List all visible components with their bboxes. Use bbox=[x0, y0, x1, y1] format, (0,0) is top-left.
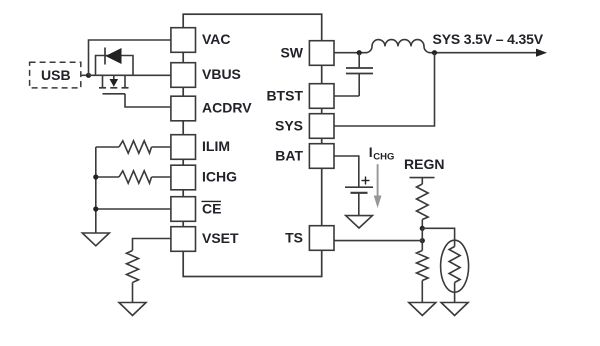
REGN rail stub bbox=[410, 177, 435, 179]
node bus-ICHG bbox=[93, 174, 98, 179]
pin BTST bbox=[266, 84, 334, 109]
wire CE to bus bbox=[96, 208, 171, 210]
ground (thermistor) bbox=[441, 303, 468, 316]
wire inductor to output bbox=[430, 52, 537, 54]
wire SYS pin to output node bbox=[334, 53, 435, 126]
svg-text:I: I bbox=[369, 144, 373, 160]
node SYS output bbox=[432, 50, 437, 55]
node TS lower bbox=[420, 238, 425, 243]
svg-text:ICHG: ICHG bbox=[202, 168, 237, 184]
node bus-CE bbox=[93, 206, 98, 211]
diode D1 (body diode) bbox=[105, 48, 122, 65]
ground (TS divider) bbox=[409, 303, 436, 316]
svg-text:REGN: REGN bbox=[404, 156, 444, 172]
wire resistor to ground bbox=[132, 283, 134, 303]
wire resistor to bus bbox=[96, 176, 119, 178]
wire between nodes bbox=[421, 228, 423, 250]
pin SYS bbox=[275, 114, 334, 139]
wire SW to inductor bbox=[334, 52, 366, 54]
svg-text:BAT: BAT bbox=[275, 148, 303, 164]
node TS upper bbox=[420, 226, 425, 231]
arrow ICHG (charge current) bbox=[374, 164, 382, 208]
IC U1 body bbox=[183, 14, 322, 276]
ground (VSET) bbox=[119, 303, 146, 316]
label ICHG bbox=[369, 144, 395, 162]
resistor R3 (VSET) bbox=[127, 251, 139, 283]
ground (battery) bbox=[346, 216, 373, 228]
svg-text:SW: SW bbox=[280, 44, 303, 60]
svg-text:TS: TS bbox=[285, 230, 303, 246]
body diode branch wires bbox=[96, 56, 134, 76]
resistor R5 (TS lower) bbox=[417, 251, 429, 303]
svg-text:BTST: BTST bbox=[266, 88, 303, 104]
pin ACDRV bbox=[171, 96, 252, 121]
svg-text:VAC: VAC bbox=[202, 31, 231, 47]
pin VAC bbox=[171, 28, 231, 53]
thermistor RT1 bbox=[441, 240, 469, 302]
node USB junction bbox=[86, 73, 91, 78]
arrow SYS output bbox=[536, 49, 547, 57]
resistor R4 (REGN to TS) bbox=[417, 178, 429, 229]
svg-text:CHG: CHG bbox=[373, 151, 394, 162]
svg-text:USB: USB bbox=[41, 67, 71, 83]
pin VBUS bbox=[171, 63, 241, 88]
resistor R1 (ILIM) bbox=[119, 141, 152, 153]
pin BAT bbox=[275, 144, 334, 169]
svg-text:ACDRV: ACDRV bbox=[202, 100, 252, 116]
pin CE (active low, overline) bbox=[171, 197, 222, 222]
svg-text:CE: CE bbox=[202, 200, 221, 216]
svg-text:VBUS: VBUS bbox=[202, 66, 241, 82]
battery BT1 bbox=[345, 177, 373, 216]
pin SW bbox=[280, 41, 334, 66]
pin VSET bbox=[171, 227, 239, 252]
transistor Q1 (P-MOSFET) bbox=[99, 75, 129, 94]
USB source box bbox=[30, 62, 81, 88]
ground (left bus) bbox=[82, 233, 109, 246]
svg-text:VSET: VSET bbox=[202, 230, 239, 246]
wire ICHG to resistor bbox=[152, 176, 171, 178]
wire VSET to resistor bbox=[133, 239, 171, 251]
wire TS pin to node bbox=[334, 240, 422, 242]
wire USB to node bbox=[81, 74, 89, 76]
wire resistor to bus bbox=[96, 146, 119, 148]
pin ICHG bbox=[171, 165, 237, 190]
wire node to VBUS (main rail) bbox=[89, 74, 171, 76]
pin ILIM bbox=[171, 135, 230, 160]
wire capacitor to BTST bbox=[334, 95, 359, 97]
inductor L1 bbox=[366, 40, 431, 53]
svg-text:ILIM: ILIM bbox=[202, 138, 230, 154]
wire BAT to battery bbox=[334, 156, 359, 187]
wire node to VAC bbox=[89, 40, 171, 75]
wire left bus bbox=[95, 147, 97, 233]
resistor R2 (ICHG) bbox=[119, 171, 152, 183]
wire gate to ACDRV bbox=[125, 94, 171, 107]
wire node to thermistor bbox=[422, 228, 454, 240]
node SW bbox=[357, 50, 362, 55]
wire ILIM to resistor bbox=[152, 146, 171, 148]
svg-text:SYS 3.5V – 4.35V: SYS 3.5V – 4.35V bbox=[433, 31, 544, 47]
pin TS bbox=[285, 226, 334, 251]
svg-text:SYS: SYS bbox=[275, 118, 303, 134]
capacitor C1 (bootstrap) bbox=[346, 53, 373, 96]
